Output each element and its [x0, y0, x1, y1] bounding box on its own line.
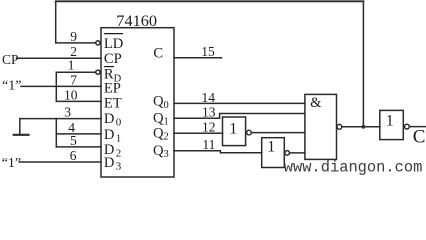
svg-text:9: 9	[70, 29, 77, 44]
wire ground drop	[19, 119, 21, 134]
wire feedback left vertical	[55, 1, 57, 43]
wire pin 11 Q3 jog to inverter	[174, 151, 262, 153]
svg-text:LD: LD	[104, 36, 123, 52]
svg-text:“1”: “1”	[2, 156, 21, 171]
svg-text:7: 7	[70, 72, 77, 87]
svg-text:12: 12	[202, 120, 216, 135]
wire net D vertical	[55, 119, 57, 147]
wire G4 output to C	[409, 126, 426, 128]
NAND gate G3 body	[305, 94, 337, 159]
svg-text:1: 1	[386, 113, 394, 130]
svg-text:1: 1	[229, 120, 237, 137]
svg-text:C: C	[153, 46, 163, 62]
svg-text:EP: EP	[104, 80, 121, 96]
svg-text:13: 13	[202, 104, 216, 119]
svg-text:CP: CP	[104, 51, 122, 67]
svg-text:3: 3	[64, 105, 71, 120]
wire pin 14 Q0 to NAND	[174, 102, 305, 104]
svg-text:14: 14	[202, 90, 216, 105]
wire pin 6 D3 input	[19, 161, 101, 163]
wire pin 15 C output stub	[174, 57, 222, 59]
bubble G3 output	[337, 124, 342, 129]
overline Rd	[104, 66, 114, 68]
overline LD	[104, 33, 123, 35]
bubble G4 output	[405, 124, 410, 129]
wire G1 out to NAND	[251, 132, 305, 134]
wire pin 2 CP input	[17, 57, 102, 59]
svg-text:5: 5	[70, 133, 77, 148]
inverter G1 body	[223, 117, 246, 146]
wire pin 10 ET input	[56, 100, 101, 102]
IC 74160 U1 body	[101, 28, 174, 177]
svg-text:11: 11	[202, 137, 215, 152]
wire net "1" vertical	[55, 72, 57, 101]
bubble G2 output	[285, 151, 290, 156]
svg-text:“1”: “1”	[2, 78, 21, 93]
svg-text:C: C	[413, 127, 426, 148]
svg-text:1: 1	[68, 57, 75, 72]
wire pin 3 D0 input	[20, 118, 101, 120]
svg-text:74160: 74160	[116, 11, 157, 30]
svg-text:ET: ET	[104, 95, 122, 111]
svg-text:10: 10	[64, 87, 78, 102]
inverter G2 body	[262, 138, 285, 168]
svg-text:&: &	[310, 95, 321, 111]
svg-text:www.diangon.com: www.diangon.com	[284, 159, 423, 177]
junction feedback node	[362, 125, 366, 129]
svg-text:15: 15	[201, 44, 215, 59]
svg-text:6: 6	[70, 148, 77, 163]
wire G3 output to inverter G4	[342, 126, 380, 128]
wire feedback right vertical	[362, 1, 364, 127]
ground	[14, 134, 29, 136]
bubble G1 output	[247, 130, 252, 135]
wire pin 12 Q2 to inverter	[174, 132, 223, 134]
bubble LD active-low input	[96, 41, 100, 45]
wire pin 7 EP input	[21, 85, 101, 87]
wire pin 4 D1 input	[56, 133, 101, 135]
svg-text:CP: CP	[2, 52, 19, 67]
wire pin 13 Q1 to NAND	[174, 114, 305, 119]
wire feedback top	[56, 0, 364, 2]
svg-text:1: 1	[267, 139, 275, 156]
wire G2 out to NAND	[290, 152, 305, 154]
inverter G4 body	[380, 110, 404, 139]
wire pin 5 D2 input	[56, 146, 101, 148]
bubble Rd active-low input	[96, 70, 100, 74]
wire pin 1 Rd input	[56, 71, 95, 73]
wire pin 9 to LD	[56, 42, 96, 44]
